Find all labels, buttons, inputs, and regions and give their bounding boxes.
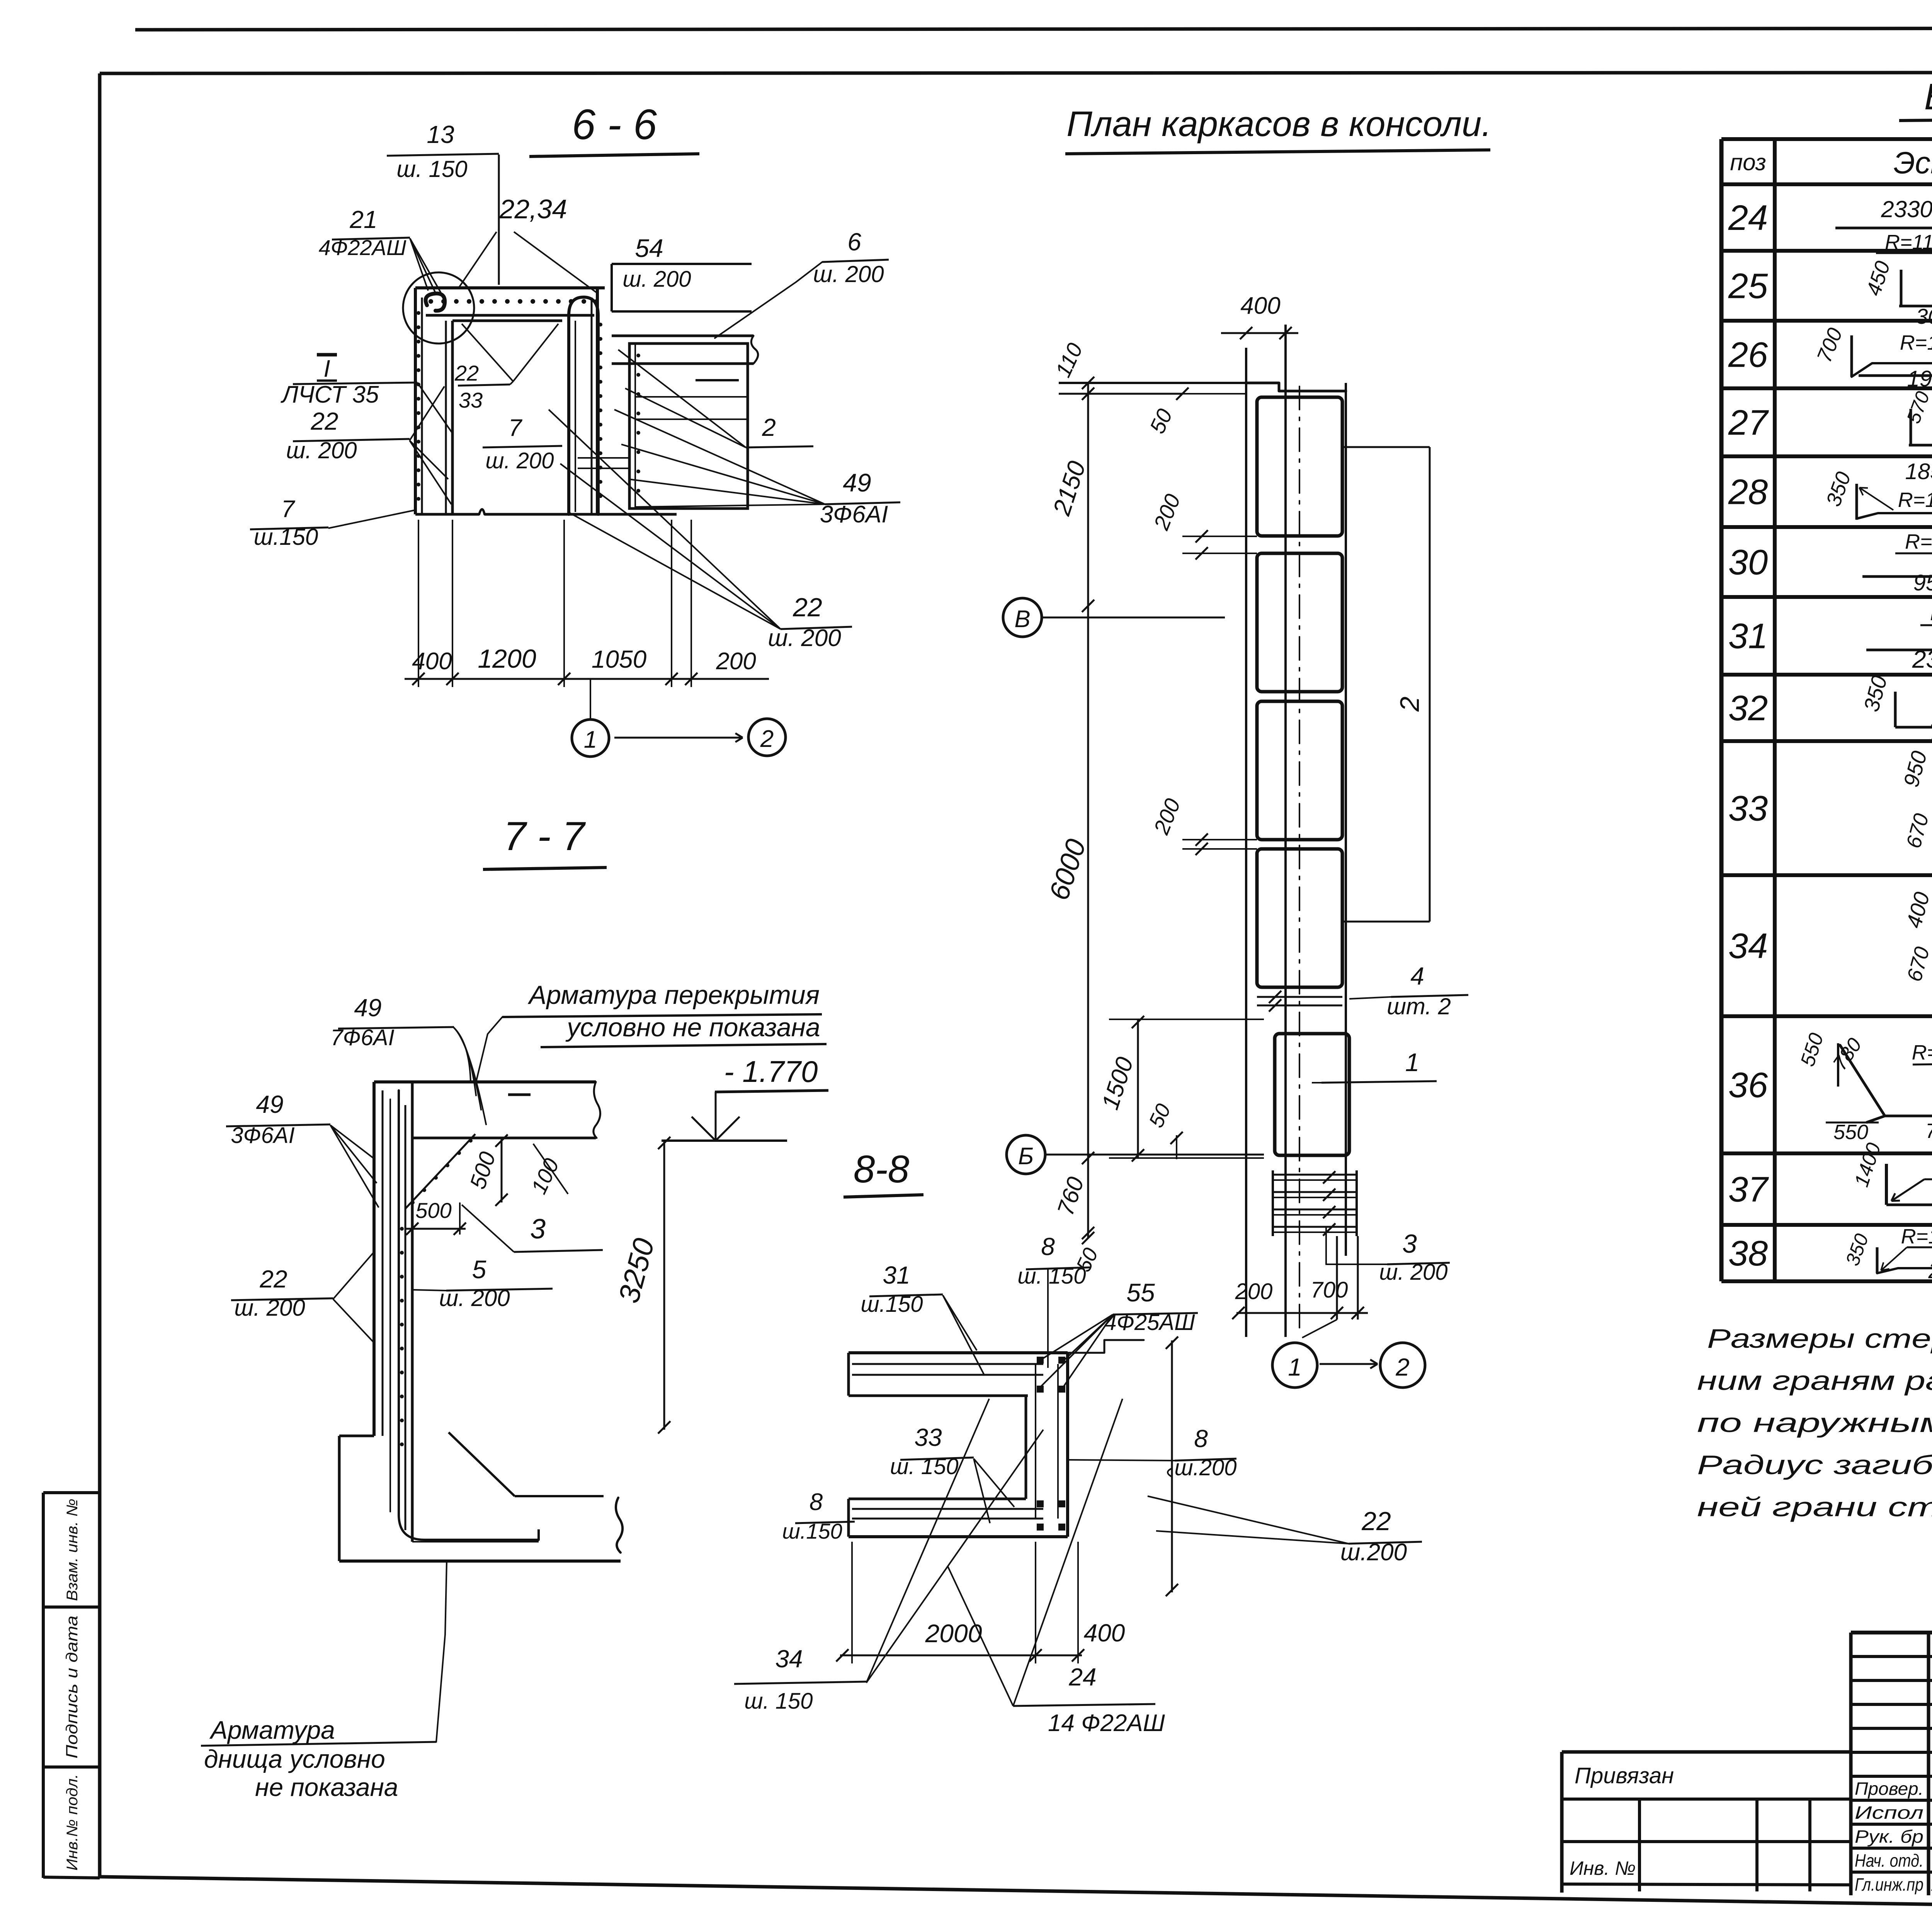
svg-text:- 1.770: - 1.770 — [724, 1054, 818, 1088]
svg-text:7 - 7: 7 - 7 — [503, 814, 586, 859]
svg-text:22: 22 — [1361, 1507, 1391, 1536]
svg-text:28: 28 — [1728, 473, 1768, 512]
svg-text:R=110: R=110 — [1900, 331, 1932, 354]
svg-text:3Ф6АI: 3Ф6АI — [231, 1123, 294, 1148]
svg-text:3: 3 — [1402, 1229, 1417, 1259]
svg-text:2000: 2000 — [925, 1619, 982, 1648]
svg-text:R=125: R=125 — [1901, 1225, 1932, 1248]
svg-text:шт. 2: шт. 2 — [1387, 993, 1451, 1019]
svg-text:750: 750 — [1925, 1119, 1932, 1143]
svg-text:ш. 200: ш. 200 — [622, 267, 691, 292]
svg-text:Инв. №: Инв. № — [1570, 1857, 1636, 1879]
svg-text:Арматура: Арматура — [209, 1716, 335, 1744]
svg-text:условно не показана: условно не показана — [565, 1013, 820, 1042]
svg-text:днища условно: днища условно — [204, 1745, 385, 1773]
svg-text:34: 34 — [1728, 927, 1768, 966]
svg-text:Взам. инв. №: Взам. инв. № — [64, 1499, 81, 1601]
svg-text:33: 33 — [459, 388, 483, 412]
svg-text:I: I — [323, 355, 330, 382]
svg-text:Радиус загиба (R) гнутых ст: Радиус загиба (R) гнутых стержней дан до… — [1697, 1450, 1932, 1480]
svg-text:1200: 1200 — [478, 644, 536, 673]
svg-text:R=110: R=110 — [1930, 602, 1932, 625]
svg-text:54: 54 — [635, 234, 663, 262]
svg-text:1: 1 — [1288, 1353, 1302, 1381]
svg-text:400: 400 — [412, 648, 452, 675]
svg-text:21: 21 — [349, 206, 377, 233]
svg-text:7: 7 — [509, 415, 523, 441]
svg-text:2: 2 — [760, 726, 774, 752]
svg-text:Гл.инж.пр: Гл.инж.пр — [1855, 1874, 1923, 1895]
svg-text:ш. 200: ш. 200 — [286, 437, 357, 463]
svg-text:49: 49 — [354, 994, 381, 1022]
svg-text:300: 300 — [1916, 304, 1932, 328]
svg-text:2750: 2750 — [1928, 1258, 1932, 1283]
svg-text:Размеры стержней позиций: Размеры стержней позиций 25,27,39,50 дан… — [1707, 1323, 1932, 1354]
svg-text:Испол: Испол — [1855, 1803, 1923, 1823]
svg-text:2: 2 — [762, 413, 776, 441]
svg-text:31: 31 — [883, 1261, 910, 1289]
svg-text:37: 37 — [1728, 1170, 1769, 1209]
svg-text:25: 25 — [1728, 267, 1768, 306]
svg-text:30: 30 — [1728, 543, 1768, 582]
svg-text:400: 400 — [1084, 1619, 1125, 1647]
svg-text:ЛЧСТ 35: ЛЧСТ 35 — [280, 381, 379, 408]
svg-text:55: 55 — [1126, 1278, 1155, 1307]
svg-text:49: 49 — [843, 468, 871, 497]
svg-text:ней грани стержня, кроме п: ней грани стержня, кроме позиции 51. — [1697, 1492, 1932, 1522]
svg-text:R=220: R=220 — [1912, 1041, 1932, 1064]
svg-text:22: 22 — [259, 1265, 287, 1293]
svg-text:ш.200: ш.200 — [1174, 1455, 1236, 1480]
svg-text:2: 2 — [1395, 1353, 1410, 1381]
svg-text:26: 26 — [1728, 335, 1768, 375]
svg-text:6: 6 — [847, 228, 861, 256]
svg-text:не показана: не показана — [255, 1773, 398, 1801]
svg-text:22: 22 — [793, 593, 822, 622]
svg-text:33: 33 — [914, 1423, 942, 1451]
svg-text:13: 13 — [427, 121, 454, 148]
svg-text:34: 34 — [775, 1645, 803, 1673]
svg-text:750: 750 — [1929, 720, 1932, 745]
svg-text:1: 1 — [1405, 1048, 1420, 1077]
svg-text:Ведомость: Ведомость — [1924, 76, 1932, 117]
svg-text:1050: 1050 — [592, 645, 647, 673]
svg-text:1: 1 — [584, 726, 597, 753]
svg-text:7: 7 — [281, 496, 296, 522]
svg-text:R=110: R=110 — [1905, 530, 1932, 553]
svg-text:200: 200 — [716, 648, 756, 675]
svg-text:31: 31 — [1728, 617, 1768, 656]
svg-text:Рук. бр: Рук. бр — [1855, 1827, 1923, 1847]
svg-text:ш.150: ш.150 — [782, 1519, 842, 1543]
svg-text:ш. 150: ш. 150 — [744, 1689, 813, 1714]
svg-text:ш. 150: ш. 150 — [890, 1454, 958, 1479]
svg-text:22,34: 22,34 — [499, 194, 567, 224]
svg-text:24: 24 — [1068, 1663, 1096, 1691]
svg-text:4: 4 — [1410, 962, 1424, 990]
svg-text:8-8: 8-8 — [854, 1148, 910, 1191]
svg-text:Б: Б — [1018, 1143, 1034, 1170]
svg-text:Привязан: Привязан — [1575, 1763, 1674, 1788]
svg-text:1850: 1850 — [1905, 459, 1932, 484]
svg-text:33: 33 — [1728, 789, 1768, 828]
svg-text:7Ф6АI: 7Ф6АI — [330, 1025, 394, 1050]
svg-text:27: 27 — [1728, 403, 1769, 442]
svg-text:ш. 200: ш. 200 — [1379, 1260, 1447, 1285]
svg-text:Провер.: Провер. — [1855, 1779, 1923, 1799]
svg-text:550: 550 — [1833, 1121, 1868, 1144]
svg-text:ш. 200: ш. 200 — [439, 1285, 510, 1311]
svg-text:ним граням рабочих стержне: ним граням рабочих стержней, остальные п… — [1697, 1366, 1932, 1396]
svg-text:ш. 150: ш. 150 — [396, 156, 467, 182]
svg-text:ш. 200: ш. 200 — [485, 448, 554, 473]
svg-text:4Ф22АШ: 4Ф22АШ — [319, 235, 406, 260]
svg-text:32: 32 — [1728, 689, 1768, 728]
svg-text:2330: 2330 — [1912, 645, 1932, 673]
svg-text:22: 22 — [310, 407, 338, 435]
svg-text:8: 8 — [1194, 1425, 1208, 1452]
svg-text:Арматура перекрытия: Арматура перекрытия — [527, 980, 820, 1010]
svg-text:Подпись и дата: Подпись и дата — [63, 1616, 81, 1759]
svg-text:ш.200: ш.200 — [1340, 1539, 1407, 1566]
svg-text:6 - 6: 6 - 6 — [572, 101, 657, 148]
svg-text:400: 400 — [1240, 293, 1280, 319]
svg-text:14 Ф22АШ: 14 Ф22АШ — [1048, 1710, 1165, 1736]
svg-text:Эскиз: Эскиз — [1894, 146, 1932, 180]
svg-text:ш. 200: ш. 200 — [234, 1295, 305, 1321]
svg-text:по наружным граням стержне: по наружным граням стержней. — [1697, 1408, 1932, 1438]
svg-text:ш.150: ш.150 — [861, 1292, 923, 1317]
svg-text:R=110: R=110 — [1898, 488, 1932, 512]
svg-text:950: 950 — [1913, 570, 1932, 595]
svg-text:5: 5 — [472, 1255, 486, 1284]
svg-text:поз: поз — [1730, 150, 1766, 175]
svg-text:700: 700 — [1311, 1277, 1348, 1303]
svg-text:500: 500 — [415, 1198, 451, 1223]
svg-text:3: 3 — [530, 1214, 546, 1245]
svg-text:1900: 1900 — [1907, 366, 1932, 391]
svg-text:22: 22 — [454, 361, 479, 385]
svg-text:36: 36 — [1728, 1066, 1768, 1105]
svg-text:В: В — [1014, 606, 1030, 633]
svg-text:3Ф6АI: 3Ф6АI — [820, 501, 888, 528]
svg-text:2330: 2330 — [1881, 196, 1932, 222]
svg-text:Инв.№ подл.: Инв.№ подл. — [64, 1774, 81, 1871]
svg-text:2: 2 — [1395, 697, 1425, 712]
svg-text:4Ф25АШ: 4Ф25АШ — [1104, 1310, 1196, 1335]
svg-text:8: 8 — [1041, 1233, 1055, 1260]
svg-text:24: 24 — [1728, 198, 1768, 238]
svg-text:Нач. отд.: Нач. отд. — [1855, 1850, 1923, 1871]
svg-text:200: 200 — [1235, 1279, 1273, 1304]
svg-text:49: 49 — [256, 1090, 283, 1118]
svg-text:8: 8 — [810, 1489, 823, 1515]
svg-text:План каркасов в консоли.: План каркасов в консоли. — [1066, 104, 1492, 144]
svg-text:ш. 200: ш. 200 — [813, 261, 884, 287]
svg-text:ш.150: ш.150 — [254, 524, 318, 550]
svg-text:38: 38 — [1728, 1234, 1768, 1273]
svg-text:R=110: R=110 — [1885, 231, 1932, 254]
